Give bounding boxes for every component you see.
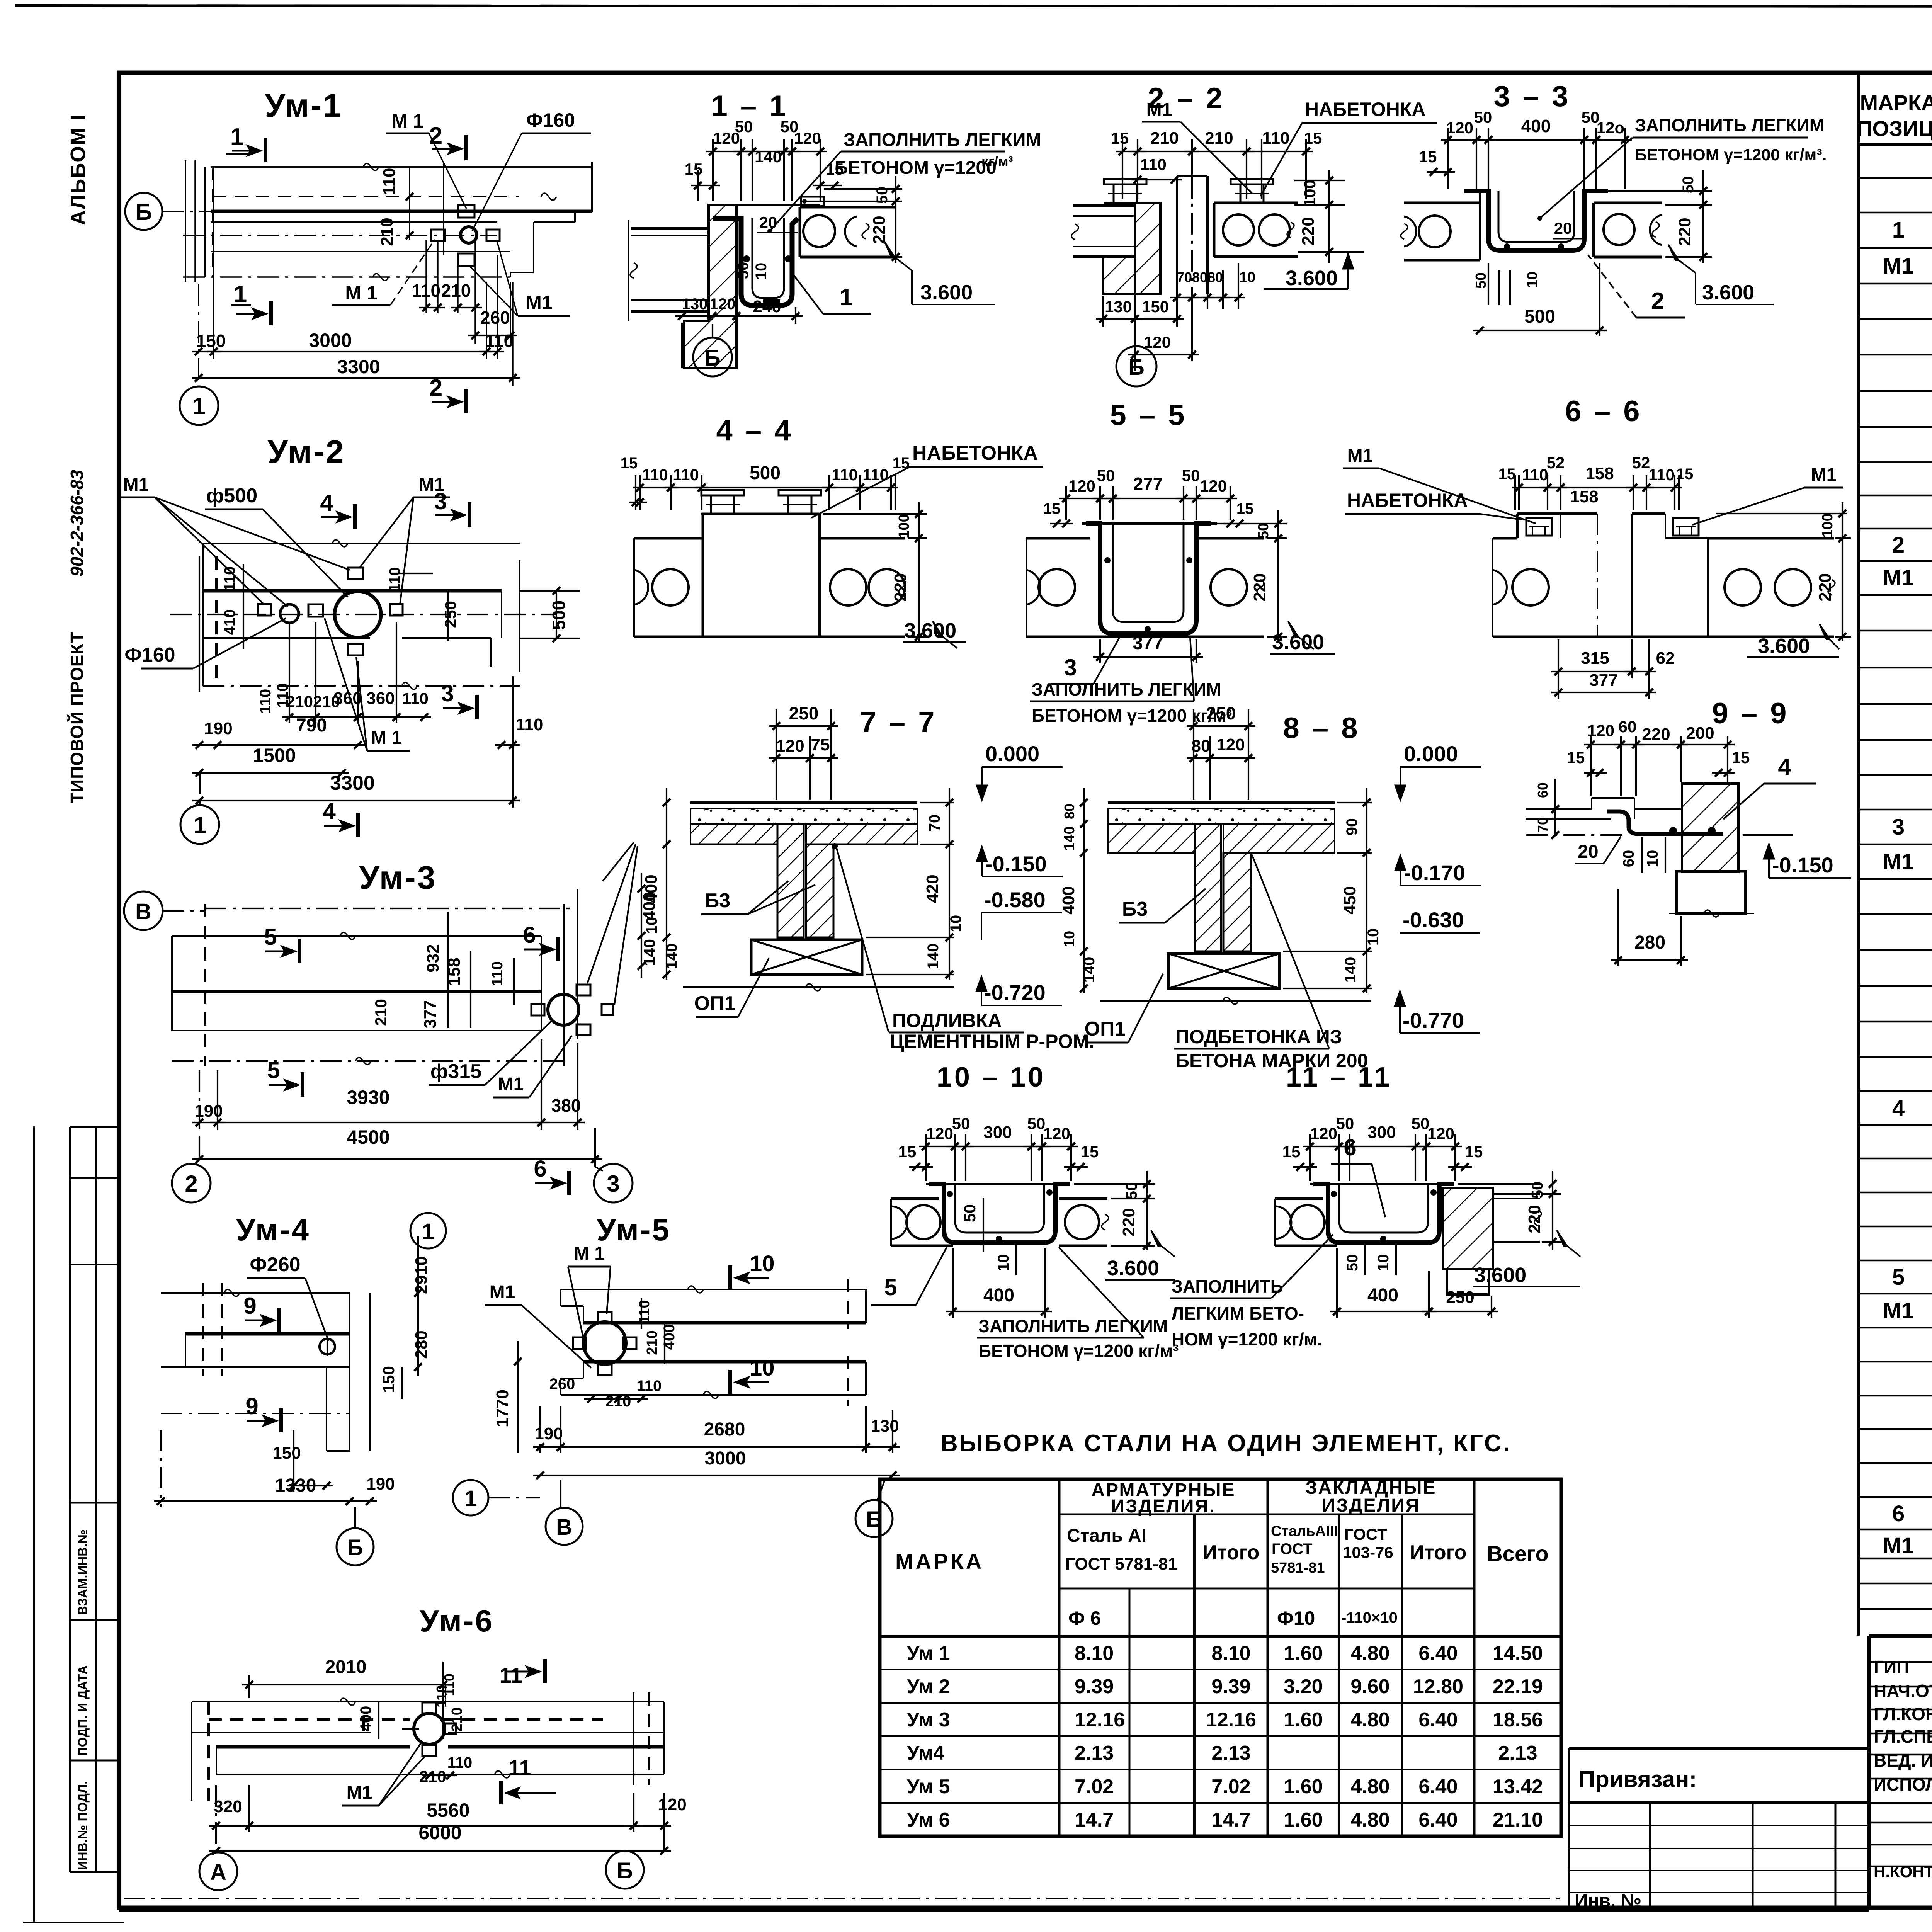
svg-text:130: 130 — [1105, 298, 1132, 316]
svg-text:400: 400 — [1367, 1285, 1398, 1306]
svg-text:11 – 11: 11 – 11 — [1286, 1062, 1392, 1093]
svg-text:15: 15 — [893, 455, 910, 472]
svg-text:200: 200 — [1686, 724, 1714, 743]
8-8 floor slab with topping — [1108, 801, 1335, 804]
svg-text:62: 62 — [1656, 649, 1675, 668]
svg-text:10: 10 — [1375, 1254, 1392, 1272]
2-2 level 3.600 — [1343, 253, 1354, 269]
svg-text:120: 120 — [710, 296, 736, 313]
svg-text:ГОСТ: ГОСТ — [1272, 1541, 1313, 1558]
6-6 right hollow slab — [1708, 537, 1834, 540]
svg-text:12o: 12o — [1597, 119, 1624, 137]
svg-text:5: 5 — [1892, 1265, 1905, 1290]
svg-text:6 – 6: 6 – 6 — [1565, 395, 1642, 428]
svg-text:Ум 2: Ум 2 — [907, 1675, 950, 1698]
svg-text:377: 377 — [1133, 633, 1163, 653]
4-4 middle monolith — [703, 514, 820, 637]
svg-text:70: 70 — [1535, 817, 1551, 833]
svg-text:220: 220 — [1250, 573, 1269, 601]
4-4 top dims — [635, 475, 636, 510]
svg-text:4.80: 4.80 — [1350, 1776, 1389, 1798]
svg-text:Ум 3: Ум 3 — [907, 1709, 950, 1731]
spec table rows — [1858, 177, 1932, 179]
svg-text:Инв. №: Инв. № — [1575, 1891, 1641, 1911]
svg-text:120: 120 — [1310, 1124, 1337, 1143]
svg-text:15: 15 — [1498, 466, 1516, 483]
steel selection table grid — [880, 1479, 1561, 1836]
svg-text:ЗАПОЛНИТЬ ЛЕГКИМ: ЗАПОЛНИТЬ ЛЕГКИМ — [844, 130, 1041, 150]
svg-text:3: 3 — [1892, 815, 1905, 840]
svg-text:50: 50 — [735, 117, 753, 136]
Um-3 axis dash line top — [205, 908, 575, 909]
svg-text:13.42: 13.42 — [1493, 1776, 1543, 1798]
svg-text:8.10: 8.10 — [1075, 1642, 1114, 1665]
svg-text:3 – 3: 3 – 3 — [1493, 80, 1570, 113]
svg-text:1.60: 1.60 — [1284, 1709, 1323, 1731]
svg-text:220: 220 — [1299, 217, 1318, 245]
svg-text:НОМ γ=1200 кг/м.: НОМ γ=1200 кг/м. — [1172, 1329, 1322, 1349]
svg-text:-0.580: -0.580 — [984, 888, 1046, 912]
svg-text:2680: 2680 — [704, 1419, 745, 1440]
svg-text:2: 2 — [185, 1171, 197, 1197]
svg-text:8 – 8: 8 – 8 — [1283, 712, 1360, 745]
svg-text:70: 70 — [1177, 269, 1192, 285]
svg-text:377: 377 — [421, 1000, 440, 1028]
7-7 ground line — [683, 986, 954, 988]
svg-text:ф500: ф500 — [206, 485, 257, 507]
svg-text:1330: 1330 — [275, 1475, 316, 1496]
svg-text:103-76: 103-76 — [1343, 1543, 1393, 1561]
svg-text:932: 932 — [423, 944, 442, 972]
svg-text:ф315: ф315 — [430, 1060, 481, 1083]
11-11 dim 400 250 — [1336, 1248, 1338, 1318]
Um-3 axis circle 3 — [594, 1164, 633, 1202]
svg-text:1: 1 — [1892, 218, 1905, 243]
5-5 right hollow slab — [1196, 537, 1264, 540]
svg-text:Б: Б — [704, 345, 721, 371]
svg-text:-0.150: -0.150 — [1772, 853, 1833, 877]
svg-text:90: 90 — [1344, 818, 1361, 836]
1-1 right dims 50 220 — [824, 188, 902, 190]
8-8 footing box — [1168, 954, 1279, 988]
svg-text:50: 50 — [735, 262, 752, 279]
sheet top edge line — [15, 5, 1932, 7]
2-2 bottom dims — [1102, 296, 1104, 327]
svg-text:БЕТОНОМ γ=1200: БЕТОНОМ γ=1200 — [835, 158, 997, 178]
Um-6 center circle with plates — [414, 1713, 445, 1744]
svg-text:260: 260 — [480, 308, 510, 328]
svg-text:110: 110 — [257, 689, 274, 714]
svg-text:2.13: 2.13 — [1211, 1742, 1250, 1764]
6-6 left notch with plate — [1516, 514, 1519, 538]
svg-text:150: 150 — [272, 1444, 301, 1463]
svg-text:20: 20 — [1578, 842, 1598, 862]
svg-text:110: 110 — [1522, 466, 1548, 484]
svg-text:СтальАIII: СтальАIII — [1271, 1523, 1338, 1539]
svg-text:11: 11 — [499, 1663, 522, 1687]
svg-text:ГОСТ 5781-81: ГОСТ 5781-81 — [1065, 1554, 1177, 1573]
Um-6 bottom axis dash line — [124, 1898, 359, 1899]
9-9 top dims 120 60 220 200 — [1590, 736, 1592, 796]
svg-text:500: 500 — [1524, 306, 1555, 327]
svg-text:М 1: М 1 — [345, 282, 377, 304]
Um-2 axis circle 1 — [180, 805, 219, 844]
svg-text:110: 110 — [673, 466, 699, 484]
svg-text:10: 10 — [750, 1355, 775, 1381]
Um-3 section mark 5 bottom — [301, 1072, 304, 1097]
svg-text:150: 150 — [196, 331, 226, 351]
svg-text:3.600: 3.600 — [1107, 1257, 1159, 1280]
svg-text:110: 110 — [489, 961, 506, 986]
svg-text:11: 11 — [508, 1755, 531, 1780]
Um-6 section mark 11 bottom — [499, 1781, 503, 1804]
8-8 top dims 250 80 120 — [1193, 709, 1194, 800]
svg-text:ПОДБЕТОНКА ИЗ: ПОДБЕТОНКА ИЗ — [1175, 1026, 1342, 1048]
svg-text:80: 80 — [1207, 269, 1223, 285]
svg-text:М1: М1 — [1883, 1298, 1914, 1323]
svg-text:ЛЕГКИМ БЕТО-: ЛЕГКИМ БЕТО- — [1172, 1303, 1304, 1323]
Um-5 section mark 10 top — [728, 1265, 732, 1289]
2-2 right hollow slab — [1214, 202, 1298, 204]
svg-text:Б3: Б3 — [1122, 898, 1148, 920]
svg-text:15: 15 — [1081, 1143, 1099, 1161]
Um-1 embedded plates M1 — [431, 230, 445, 241]
svg-text:ТИПОВОЙ ПРОЕКТ: ТИПОВОЙ ПРОЕКТ — [67, 631, 87, 803]
svg-text:10: 10 — [750, 1251, 775, 1276]
3-3 dims 50 10 below — [1488, 263, 1489, 305]
svg-text:ЦЕМЕНТНЫМ Р-РОМ.: ЦЕМЕНТНЫМ Р-РОМ. — [890, 1031, 1094, 1052]
svg-text:50: 50 — [1680, 176, 1697, 194]
svg-text:100: 100 — [1301, 180, 1319, 207]
11-11 right slab beyond wall — [1493, 1193, 1540, 1195]
svg-text:Ум-6: Ум-6 — [420, 1604, 494, 1638]
svg-text:120: 120 — [1216, 735, 1245, 754]
svg-text:Ум-4: Ум-4 — [236, 1213, 310, 1247]
9-9 slab plate detail — [1526, 808, 1592, 810]
1-1 top lip line — [709, 204, 820, 206]
svg-text:ПОДП. И ДАТА: ПОДП. И ДАТА — [75, 1665, 90, 1756]
svg-text:500: 500 — [549, 600, 569, 630]
Um-4 section mark 9 bottom — [279, 1408, 283, 1432]
svg-text:4: 4 — [323, 798, 336, 824]
svg-text:15: 15 — [621, 455, 638, 472]
svg-text:220: 220 — [891, 573, 910, 601]
Um-4 plan walls — [161, 1292, 350, 1294]
Um-3 section mark 6 top — [556, 937, 560, 961]
10-10 level 3.600 — [1151, 1230, 1161, 1246]
svg-text:М 1: М 1 — [391, 110, 423, 132]
svg-text:15: 15 — [1282, 1143, 1301, 1161]
Um-3 axis circle 2 — [172, 1164, 211, 1202]
bottom-left stamp column boxes — [69, 1127, 71, 1872]
svg-text:75: 75 — [811, 735, 830, 754]
svg-text:220: 220 — [1525, 1205, 1544, 1233]
svg-text:2.13: 2.13 — [1498, 1742, 1537, 1764]
svg-text:МАРКА: МАРКА — [1860, 90, 1932, 115]
svg-text:ГЛ.КОНСТ.: ГЛ.КОНСТ. — [1874, 1704, 1932, 1724]
svg-text:220: 220 — [1119, 1208, 1138, 1236]
4-4 embedded plates — [701, 490, 744, 495]
svg-text:-0.630: -0.630 — [1403, 908, 1464, 932]
svg-text:60: 60 — [1619, 718, 1637, 736]
svg-text:М1: М1 — [526, 292, 552, 313]
3-3 dim 500 — [1599, 263, 1600, 336]
1-1 plate on right lip — [801, 197, 824, 206]
svg-text:50: 50 — [1473, 272, 1489, 289]
Um-1 drain circle F160 — [461, 227, 477, 243]
svg-text:В: В — [556, 1515, 572, 1540]
svg-text:1.60: 1.60 — [1284, 1809, 1323, 1831]
svg-text:6.40: 6.40 — [1418, 1776, 1458, 1798]
svg-text:Ум4: Ум4 — [907, 1742, 944, 1764]
1-1 left wall slab — [631, 227, 709, 230]
svg-text:НАБЕТОНКА: НАБЕТОНКА — [912, 442, 1038, 464]
svg-text:ИЗДЕЛИЯ.: ИЗДЕЛИЯ. — [1111, 1496, 1216, 1517]
svg-text:10: 10 — [1365, 929, 1382, 946]
svg-text:М1: М1 — [1883, 849, 1914, 874]
Um-2 section mark 3 bottom — [475, 695, 479, 719]
svg-text:15: 15 — [1043, 500, 1061, 517]
7-7 footing box — [751, 940, 862, 975]
7-7 T stem hatched — [777, 824, 804, 937]
svg-text:ВЫБОРКА СТАЛИ НА ОДИН ЭЛЕМ: ВЫБОРКА СТАЛИ НА ОДИН ЭЛЕМЕНТ, КГС. — [940, 1430, 1511, 1457]
svg-text:400: 400 — [640, 892, 659, 920]
svg-text:Ум-2: Ум-2 — [268, 434, 345, 470]
3-3 top dims — [1447, 128, 1449, 189]
svg-text:М1: М1 — [123, 474, 149, 495]
svg-text:-0.150: -0.150 — [985, 852, 1047, 876]
svg-text:9 – 9: 9 – 9 — [1712, 697, 1789, 730]
9-9 hatched wall — [1682, 784, 1738, 872]
svg-text:9.39: 9.39 — [1075, 1675, 1114, 1698]
svg-text:Сталь AI: Сталь AI — [1067, 1526, 1146, 1546]
Um-2 embedded plates — [348, 568, 363, 579]
svg-text:ВЕД. ИНЖ: ВЕД. ИНЖ — [1874, 1750, 1932, 1770]
6-6 level 3.600 — [1820, 624, 1830, 639]
svg-text:4500: 4500 — [347, 1126, 389, 1148]
svg-text:210: 210 — [1205, 129, 1233, 148]
9-9 footing — [1677, 871, 1745, 913]
svg-text:Ум-1: Ум-1 — [265, 87, 343, 124]
svg-text:Б: Б — [347, 1535, 363, 1560]
svg-text:Б: Б — [866, 1507, 882, 1532]
svg-text:315: 315 — [1581, 649, 1609, 668]
svg-text:420: 420 — [923, 874, 942, 903]
svg-text:14.50: 14.50 — [1493, 1642, 1543, 1665]
1-1 top dim ticks — [706, 151, 748, 152]
svg-text:21.10: 21.10 — [1493, 1809, 1543, 1831]
svg-text:50: 50 — [961, 1204, 979, 1223]
svg-text:20: 20 — [1554, 219, 1572, 237]
svg-text:210: 210 — [419, 1767, 446, 1786]
Um-5 axis circle V — [546, 1508, 583, 1545]
svg-text:50: 50 — [1097, 466, 1115, 485]
svg-text:52: 52 — [1632, 454, 1650, 472]
svg-text:50: 50 — [1412, 1114, 1430, 1133]
svg-text:-0.770: -0.770 — [1403, 1008, 1464, 1032]
svg-text:150: 150 — [379, 1366, 398, 1393]
10-10 U channel — [926, 1183, 1070, 1185]
Um-2 bottom slab edge — [203, 685, 520, 687]
bottom frame lower rule — [119, 1909, 1869, 1912]
svg-text:Ум-3: Ум-3 — [359, 859, 437, 896]
svg-text:ОП1: ОП1 — [694, 992, 736, 1015]
svg-text:15: 15 — [1419, 148, 1437, 166]
svg-text:1500: 1500 — [253, 745, 296, 766]
svg-text:3300: 3300 — [330, 772, 375, 794]
svg-text:190: 190 — [534, 1424, 563, 1443]
11-11 level 3.600 — [1557, 1230, 1567, 1246]
svg-text:ГИП: ГИП — [1874, 1657, 1909, 1677]
3-3 left hollow slab — [1404, 202, 1480, 204]
svg-text:1.60: 1.60 — [1284, 1642, 1323, 1665]
5-5 left hollow slab — [1026, 537, 1090, 540]
1-1 U channel liner — [713, 218, 798, 305]
2-2 center wall — [1176, 176, 1178, 294]
svg-text:130: 130 — [682, 296, 708, 313]
svg-text:400: 400 — [357, 1706, 374, 1732]
svg-text:120: 120 — [1043, 1124, 1070, 1143]
svg-text:3: 3 — [441, 680, 454, 706]
svg-text:АЛЬБОМ I: АЛЬБОМ I — [66, 114, 90, 225]
9-9 dim 280 — [1617, 889, 1619, 966]
svg-text:М1: М1 — [1347, 446, 1373, 466]
svg-text:3.600: 3.600 — [1702, 281, 1754, 304]
Um-3 opening F315 — [548, 994, 579, 1025]
svg-text:3.20: 3.20 — [1284, 1675, 1323, 1698]
11-11 U channel — [1310, 1183, 1454, 1185]
svg-text:360: 360 — [366, 689, 395, 708]
Um-6 long band — [192, 1701, 664, 1702]
6-6 top dims — [1514, 475, 1516, 510]
2-2 left wall slab — [1073, 204, 1135, 207]
svg-text:220: 220 — [1816, 573, 1835, 601]
svg-text:5: 5 — [267, 1057, 280, 1083]
svg-text:9.60: 9.60 — [1350, 1675, 1389, 1698]
svg-text:М1: М1 — [490, 1282, 515, 1303]
svg-text:110: 110 — [386, 567, 403, 592]
Um-5 axis circle 1 — [453, 1480, 488, 1515]
svg-text:Привязан:: Привязан: — [1578, 1766, 1697, 1792]
svg-text:410: 410 — [221, 609, 238, 635]
svg-text:150: 150 — [1142, 298, 1169, 316]
svg-text:110: 110 — [1262, 129, 1290, 148]
svg-text:120: 120 — [794, 129, 821, 147]
10-10 dim 400 — [952, 1248, 954, 1318]
svg-text:400: 400 — [983, 1285, 1014, 1306]
svg-text:22.19: 22.19 — [1493, 1675, 1543, 1698]
svg-text:ГОСТ: ГОСТ — [1344, 1525, 1387, 1543]
svg-text:12.80: 12.80 — [1413, 1675, 1463, 1698]
svg-text:2: 2 — [429, 122, 442, 149]
svg-text:12.16: 12.16 — [1206, 1709, 1256, 1731]
svg-text:-0.720: -0.720 — [984, 980, 1046, 1005]
Um-2 big opening F500 — [335, 591, 381, 638]
svg-text:Ф260: Ф260 — [250, 1253, 300, 1276]
svg-text:Б: Б — [1128, 355, 1145, 380]
svg-text:140: 140 — [755, 148, 782, 166]
svg-text:5560: 5560 — [427, 1799, 469, 1821]
svg-text:Б3: Б3 — [705, 889, 730, 912]
title block signature table — [1867, 1636, 1871, 1908]
svg-text:15: 15 — [1111, 129, 1129, 147]
svg-text:М1: М1 — [1811, 465, 1837, 485]
svg-text:М1: М1 — [1146, 100, 1172, 120]
svg-text:120: 120 — [1200, 477, 1227, 495]
svg-text:110: 110 — [642, 466, 668, 484]
Um-4 left dashed — [202, 1283, 204, 1376]
svg-text:50: 50 — [1255, 523, 1272, 539]
svg-text:МАРКА: МАРКА — [895, 1549, 984, 1573]
svg-text:4.80: 4.80 — [1350, 1709, 1389, 1731]
Um-3 leader M1 top right — [603, 842, 634, 881]
1-1 axis circle B — [693, 338, 732, 376]
svg-text:2010: 2010 — [325, 1657, 367, 1677]
2-2 hatched pier — [1103, 203, 1160, 294]
svg-text:3000: 3000 — [309, 330, 352, 351]
Um-1 section mark 2 bottom — [464, 389, 468, 413]
10-10 right dims 50 220 — [1074, 1183, 1155, 1185]
svg-text:158: 158 — [1585, 464, 1614, 483]
Um-4 section mark 9 top — [277, 1308, 281, 1332]
svg-text:9: 9 — [243, 1293, 256, 1319]
svg-text:210: 210 — [441, 281, 471, 301]
svg-text:50: 50 — [1474, 108, 1492, 126]
1-1 level 3.600 — [884, 241, 895, 257]
2-2 embedded plates with anchors — [1104, 179, 1146, 184]
5-5 dim 377 — [1093, 656, 1203, 658]
svg-text:ПОДЛИВКА: ПОДЛИВКА — [892, 1010, 1002, 1031]
svg-text:3: 3 — [607, 1171, 619, 1197]
7-7 left dims 400 10 140 — [666, 788, 667, 980]
svg-text:50: 50 — [1336, 1114, 1354, 1133]
svg-text:130: 130 — [871, 1417, 899, 1435]
svg-text:10: 10 — [1524, 272, 1541, 288]
Um-4 lower branch — [326, 1367, 327, 1451]
svg-text:190: 190 — [204, 719, 232, 738]
Um-2 wall band — [203, 589, 502, 593]
1-1 top dimension extension lines — [712, 139, 714, 201]
svg-text:10: 10 — [947, 915, 964, 932]
svg-text:5781-81: 5781-81 — [1271, 1560, 1325, 1576]
7-7 floor slab with topping — [690, 801, 917, 804]
svg-text:10 – 10: 10 – 10 — [937, 1062, 1046, 1093]
8-8 right dims 90 450 10 140 — [1337, 802, 1372, 803]
svg-text:50: 50 — [874, 187, 891, 204]
6-6 right part — [1632, 512, 1665, 515]
svg-text:280: 280 — [412, 1330, 431, 1359]
Um-2 section mark 3 top — [468, 502, 471, 527]
svg-text:0.000: 0.000 — [985, 742, 1039, 766]
svg-text:110: 110 — [832, 466, 858, 484]
svg-text:1: 1 — [422, 1219, 434, 1244]
svg-text:15: 15 — [685, 160, 703, 178]
svg-text:ОП1: ОП1 — [1085, 1018, 1126, 1040]
svg-text:2: 2 — [429, 375, 442, 401]
svg-text:3: 3 — [434, 488, 447, 514]
svg-text:1: 1 — [464, 1486, 477, 1511]
svg-text:М1: М1 — [1883, 1533, 1914, 1558]
svg-text:10: 10 — [1644, 850, 1661, 867]
svg-text:15: 15 — [1304, 129, 1322, 147]
svg-text:140: 140 — [1061, 826, 1078, 850]
Um-5 lower band — [583, 1360, 866, 1364]
svg-text:ИСПОЛН.: ИСПОЛН. — [1874, 1774, 1932, 1794]
Um-1 section mark 1 top — [264, 138, 267, 162]
svg-text:110: 110 — [447, 1754, 473, 1771]
svg-text:400: 400 — [1521, 116, 1551, 136]
svg-text:4: 4 — [1892, 1096, 1905, 1121]
